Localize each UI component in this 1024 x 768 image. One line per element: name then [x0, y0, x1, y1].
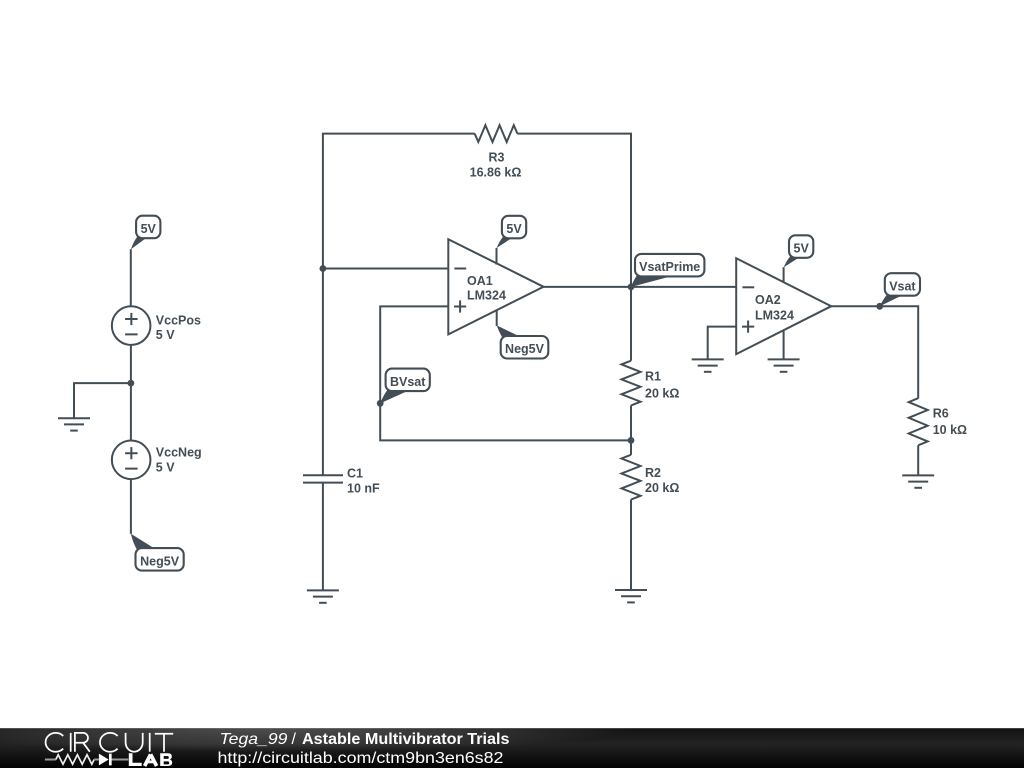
- net flag 5V (OA1 power): [497, 216, 527, 248]
- wire OA2 output: [831, 306, 918, 398]
- svg-text:20 kΩ: 20 kΩ: [645, 386, 679, 400]
- svg-text:LM324: LM324: [755, 309, 794, 323]
- net flag 5V (OA2 power): [784, 235, 814, 267]
- svg-text:http://circuitlab.com/ctm9bn3e: http://circuitlab.com/ctm9bn3en6s82: [218, 750, 504, 767]
- node BVsat attach: [377, 400, 384, 407]
- wire output node down to R1: [630, 287, 632, 361]
- wire R2 to ground: [630, 500, 632, 590]
- resistor R2: [622, 455, 680, 500]
- svg-text:Neg5V: Neg5V: [505, 342, 545, 356]
- svg-text:R1: R1: [645, 370, 661, 384]
- net flag VsatPrime: [631, 254, 704, 287]
- svg-text:Neg5V: Neg5V: [140, 554, 180, 568]
- wire OA1 inverting input: [323, 268, 448, 270]
- wire junction to ground: [74, 383, 131, 418]
- wire OA1 bottom power pin: [496, 310, 498, 326]
- wire OA2 bottom power pin to ground: [783, 330, 785, 359]
- wire right vertical top (R3 to output node): [630, 133, 632, 287]
- wire OA1 output to OA2 inverting input: [544, 286, 737, 288]
- ground (OA2 non-inverting): [692, 359, 724, 371]
- voltage source VccNeg: [112, 441, 202, 480]
- net flag BVsat: [380, 369, 430, 404]
- svg-text:Vsat: Vsat: [889, 279, 916, 293]
- svg-text:5 V: 5 V: [156, 328, 175, 342]
- ground (OA2 power): [768, 359, 800, 371]
- resistor R1: [622, 361, 680, 406]
- svg-text:Tega_99: Tega_99: [220, 731, 288, 748]
- svg-text:R2: R2: [645, 466, 661, 480]
- svg-text:Astable Multivibrator Trials: Astable Multivibrator Trials: [302, 731, 510, 748]
- net flag Neg5V (left supply): [131, 534, 184, 571]
- wire R3 right: [517, 133, 631, 287]
- wire VccNeg to Neg5V flag: [130, 479, 132, 534]
- node junction of VccPos/VccNeg: [127, 380, 134, 387]
- wire VccPos to junction to VccNeg: [130, 345, 132, 440]
- ground (below R2): [615, 590, 647, 602]
- svg-text:R6: R6: [933, 407, 949, 421]
- node R1/R2 junction: [628, 437, 635, 444]
- wire left vertical (inverting input column): [323, 134, 475, 475]
- svg-text:C1: C1: [347, 467, 363, 481]
- svg-text:20 kΩ: 20 kΩ: [645, 481, 679, 495]
- svg-text:5V: 5V: [506, 222, 522, 236]
- capacitor C1: [303, 467, 380, 496]
- net flag Vsat: [880, 273, 920, 306]
- net flag Neg5V (OA1 power): [497, 325, 549, 358]
- svg-text:R3: R3: [489, 151, 505, 165]
- voltage source VccPos: [112, 306, 201, 345]
- CircuitLab logo CIRCUIT: [46, 733, 174, 752]
- net flag 5V (left supply): [131, 216, 161, 250]
- wire from 5V flag to VccPos: [130, 249, 132, 306]
- node output (VsatPrime): [628, 284, 635, 291]
- svg-text:OA2: OA2: [755, 293, 781, 307]
- svg-text:5V: 5V: [794, 242, 810, 256]
- CircuitLab logo diode/resistor + LAB: [45, 753, 172, 766]
- wire OA1 top power pin: [496, 248, 498, 265]
- node Vsat attach: [876, 303, 883, 310]
- svg-text:LM324: LM324: [467, 288, 506, 302]
- wire OA2 top power pin: [783, 267, 785, 282]
- op-amp OA1: [448, 239, 543, 334]
- wire R1 to junction to R2: [630, 406, 632, 455]
- wire C1 to ground: [322, 483, 324, 591]
- ground (below R6): [902, 475, 934, 487]
- ground (left supply): [58, 418, 90, 430]
- resistor R3: [470, 125, 522, 179]
- svg-text:VsatPrime: VsatPrime: [639, 260, 700, 274]
- svg-text:VccPos: VccPos: [156, 314, 201, 328]
- svg-text:10 kΩ: 10 kΩ: [933, 423, 967, 437]
- node inverting input junction: [320, 265, 327, 272]
- svg-text:/: /: [292, 731, 297, 748]
- svg-text:OA1: OA1: [467, 274, 493, 288]
- ground (below C1): [307, 590, 339, 602]
- wire OA1 non-inverting input / BVsat loop: [380, 306, 631, 440]
- svg-text:16.86 kΩ: 16.86 kΩ: [470, 166, 522, 180]
- svg-text:5V: 5V: [141, 222, 157, 236]
- resistor R6: [909, 398, 967, 445]
- wire OA2 non-inverting input to ground: [708, 327, 737, 360]
- svg-text:BVsat: BVsat: [390, 375, 426, 389]
- svg-text:5 V: 5 V: [156, 461, 175, 475]
- op-amp OA2: [736, 258, 831, 354]
- wire R6 to ground: [917, 445, 919, 475]
- svg-text:10 nF: 10 nF: [347, 481, 380, 495]
- svg-text:VccNeg: VccNeg: [156, 446, 202, 460]
